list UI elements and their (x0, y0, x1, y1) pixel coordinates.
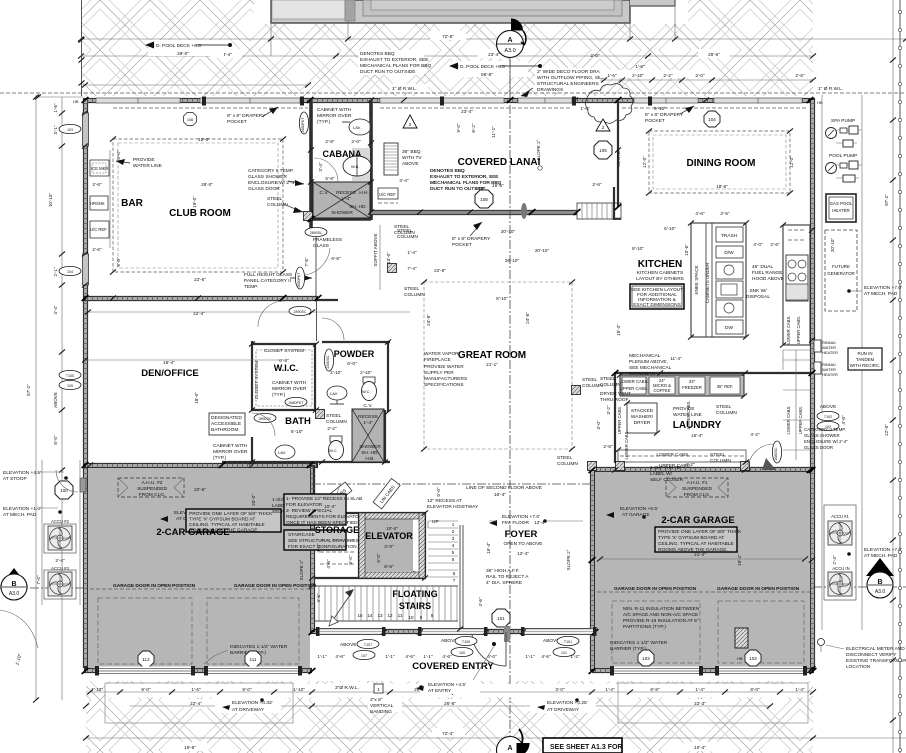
rwl note (390, 84, 854, 92)
B marker right (866, 558, 894, 576)
svg-text:W.I.C.: W.I.C. (274, 363, 299, 373)
svg-text:MIRROR OVER: MIRROR OVER (317, 113, 352, 119)
svg-text:2: 2 (409, 122, 412, 127)
svg-text:5: 5 (452, 550, 455, 555)
svg-text:7'-0": 7'-0" (36, 575, 41, 585)
svg-text:6'-8": 6'-8" (331, 256, 341, 261)
svg-text:STAIRCASE: STAIRCASE (288, 532, 315, 538)
ticks on property line (890, 57, 896, 62)
club room south wall (84, 296, 318, 301)
svg-text:1'-1": 1'-1" (423, 654, 433, 659)
svg-text:8" x 8" DRAPERY: 8" x 8" DRAPERY (645, 112, 684, 118)
svg-text:STRUCTURAL ENGINEERS: STRUCTURAL ENGINEERS (537, 81, 599, 87)
svg-text:7: 7 (453, 578, 456, 583)
svg-text:16'-4": 16'-4" (163, 360, 175, 365)
svg-text:AT STOOP: AT STOOP (3, 476, 27, 482)
svg-text:T101: T101 (564, 640, 572, 644)
svg-text:14: 14 (367, 613, 373, 618)
svg-text:HEATER: HEATER (822, 372, 838, 377)
svg-text:33": 33" (689, 379, 696, 384)
svg-text:1'-6": 1'-6" (635, 64, 645, 69)
svg-text:KITCHEN: KITCHEN (638, 259, 682, 270)
svg-text:RECESS: RECESS (358, 414, 378, 420)
svg-text:20'-10": 20'-10" (830, 238, 835, 253)
svg-text:23'-4": 23'-4" (488, 52, 500, 57)
svg-text:AT MECH. PAD: AT MECH. PAD (3, 512, 37, 518)
svg-text:1'-1": 1'-1" (525, 654, 535, 659)
svg-text:SH. HD.: SH. HD. (349, 204, 367, 210)
garage door openings in bottom walls (95, 666, 807, 676)
svg-text:T.O. POOL DECK +6.5': T.O. POOL DECK +6.5' (152, 43, 202, 49)
svg-text:SLOPE 2°: SLOPE 2° (299, 559, 304, 580)
svg-text:A: A (507, 37, 512, 44)
electrical meter note (818, 639, 825, 646)
svg-text:ABOVE: ABOVE (53, 392, 58, 408)
deco floor drain note (521, 68, 605, 97)
svg-text:FOR EXACT CONFIGURATION: FOR EXACT CONFIGURATION (288, 544, 357, 550)
svg-text:BAR: BAR (121, 198, 143, 209)
left garage east wall (310, 465, 315, 632)
svg-text:CLUB ROOM: CLUB ROOM (169, 208, 231, 219)
svg-text:105: 105 (599, 148, 607, 153)
svg-text:3: 3 (452, 536, 455, 541)
svg-text:20'-10": 20'-10" (501, 229, 516, 234)
svg-text:8'-0": 8'-0" (348, 555, 353, 565)
svg-text:ACCESSIBLE: ACCESSIBLE (211, 421, 241, 427)
svg-text:LOCATION: LOCATION (846, 664, 871, 670)
svg-text:MIRROR OVER: MIRROR OVER (272, 386, 307, 392)
powder wc (363, 377, 375, 383)
revision cloud (586, 84, 634, 124)
stoop door (55, 481, 73, 499)
svg-text:CEILING. TYPICAL AT HABITABLE: CEILING. TYPICAL AT HABITABLE (658, 541, 734, 547)
svg-text:KNEE SPACE: KNEE SPACE (694, 265, 699, 294)
svg-text:ICE MKR: ICE MKR (91, 166, 108, 171)
laundry west wall (614, 372, 616, 463)
svg-text:28'-0": 28'-0" (177, 51, 189, 56)
svg-text:ELEVATION +7.0': ELEVATION +7.0' (864, 547, 902, 553)
svg-text:2'-8": 2'-8" (325, 139, 335, 144)
svg-text:5'-0": 5'-0" (436, 487, 441, 497)
svg-text:24'-8": 24'-8" (525, 312, 530, 324)
wb oval (343, 156, 371, 176)
marker A top (497, 19, 526, 96)
svg-text:T105: T105 (66, 374, 74, 378)
svg-text:EXHAUST TO EXTERIOR, SEE: EXHAUST TO EXTERIOR, SEE (360, 57, 429, 63)
svg-text:4'-6": 4'-6" (478, 597, 483, 607)
svg-text:2: 2 (602, 125, 605, 130)
svg-text:FRAMELESS: FRAMELESS (313, 237, 342, 243)
svg-text:TYPE 'X' GYPSUM BOARD AT: TYPE 'X' GYPSUM BOARD AT (189, 517, 255, 523)
svg-text:HEATER: HEATER (822, 350, 838, 355)
dim stub top-left (36, 96, 83, 98)
stair arrow (333, 592, 352, 620)
dashed deck line above wall (0, 92, 906, 94)
svg-text:22'-4": 22'-4" (190, 701, 202, 706)
svg-text:9'-0": 9'-0" (141, 687, 151, 692)
svg-text:ACCU #2: ACCU #2 (51, 519, 69, 524)
right garage west wall (590, 462, 595, 671)
svg-text:107: 107 (361, 654, 367, 658)
T.O. pool deck notes (145, 40, 542, 77)
svg-text:STEEL: STEEL (326, 413, 342, 419)
bbq counter (384, 143, 398, 175)
svg-text:SEE STRUCTURAL DRAWINGS: SEE STRUCTURAL DRAWINGS (288, 538, 359, 544)
svg-text:STEEL: STEEL (600, 376, 616, 382)
svg-text:POCKET: POCKET (452, 242, 472, 248)
exterior top wall (84, 98, 810, 103)
svg-text:12'-0": 12'-0" (789, 156, 794, 168)
svg-text:9'-10": 9'-10" (654, 106, 666, 111)
svg-text:ABOVE: ABOVE (340, 642, 357, 648)
svg-text:2'-10": 2'-10" (632, 73, 644, 78)
svg-text:TYPE 'X' GYPSUM BOARD AT: TYPE 'X' GYPSUM BOARD AT (658, 535, 724, 541)
svg-text:2'-0": 2'-0" (695, 73, 705, 78)
svg-text:PROVIDE R-19 INSULATION AT 6": PROVIDE R-19 INSULATION AT 6" (623, 618, 699, 624)
svg-text:6'-10": 6'-10" (664, 226, 676, 231)
left exterior wall (83, 98, 88, 668)
svg-text:STEEL: STEEL (710, 452, 726, 458)
svg-text:GARAGE DOOR IN OPEN POSITION: GARAGE DOOR IN OPEN POSITION (717, 586, 800, 592)
svg-text:6'-2": 6'-2" (471, 123, 476, 133)
svg-text:EXISTING TRANSFORMER: EXISTING TRANSFORMER (846, 658, 906, 664)
svg-text:1'-4": 1'-4" (695, 687, 705, 692)
svg-text:8: 8 (431, 613, 434, 618)
wall poche rungs (86, 101, 813, 671)
svg-text:4'-2": 4'-2" (685, 462, 695, 467)
svg-text:19'-0": 19'-0" (192, 196, 197, 208)
svg-text:REQUIREMENTS FOR ELEVATOR: REQUIREMENTS FOR ELEVATOR (286, 514, 363, 520)
svg-text:11: 11 (398, 613, 403, 618)
svg-text:DENOTES BBQ: DENOTES BBQ (430, 168, 465, 174)
svg-text:WATER LINE: WATER LINE (133, 163, 162, 169)
svg-text:12: 12 (387, 613, 393, 618)
svg-text:POCKET: POCKET (645, 118, 665, 124)
svg-text:4'-0": 4'-0" (753, 242, 763, 247)
svg-text:INDICATES 1-1/2" WATER: INDICATES 1-1/2" WATER (610, 640, 668, 646)
svg-text:3'-4": 3'-4" (399, 178, 409, 183)
svg-text:STACKED: STACKED (631, 408, 654, 414)
svg-text:10: 10 (408, 615, 414, 620)
svg-text:2'-2": 2'-2" (663, 73, 673, 78)
top dimension row 1 (78, 31, 906, 59)
svg-text:(TYP.): (TYP.) (213, 455, 227, 461)
svg-text:WITH TV: WITH TV (402, 155, 422, 161)
svg-text:EXHAUST TO EXTERIOR, SEE: EXHAUST TO EXTERIOR, SEE (430, 174, 499, 180)
svg-text:1-3/4" THK "B": 1-3/4" THK "B" (650, 465, 682, 471)
svg-text:2'-6": 2'-6" (592, 182, 602, 187)
second floor line (312, 483, 592, 485)
svg-text:1'-4": 1'-4" (795, 687, 805, 692)
svg-text:3'-0": 3'-0" (316, 543, 321, 553)
svg-text:26'-8": 26'-8" (444, 701, 456, 706)
svg-text:POCKET: POCKET (227, 119, 247, 125)
angled linen cabinets (321, 478, 400, 509)
B marker left (0, 568, 28, 586)
bottom wall left garage (84, 668, 312, 673)
laundry door (772, 441, 781, 463)
svg-text:LINE OF SECOND FLOOR ABOVE: LINE OF SECOND FLOOR ABOVE (466, 485, 542, 491)
svg-text:STEEL: STEEL (557, 455, 573, 461)
svg-text:1'-4": 1'-4" (605, 687, 615, 692)
center line vertical (509, 60, 511, 748)
svg-text:STORAGE: STORAGE (315, 525, 359, 535)
svg-text:9: 9 (420, 615, 423, 620)
svg-text:1'-4": 1'-4" (341, 196, 351, 202)
svg-text:GARAGE DOOR IN OPEN POSITION: GARAGE DOOR IN OPEN POSITION (113, 583, 196, 589)
svg-text:H.H.: H.H. (359, 190, 369, 196)
svg-text:2'-6": 2'-6" (795, 73, 805, 78)
door open rects (98, 598, 192, 664)
svg-text:112: 112 (142, 657, 150, 662)
svg-text:26'-10": 26'-10" (505, 258, 520, 263)
svg-text:5'-0": 5'-0" (376, 553, 381, 563)
hex 105 (594, 141, 612, 159)
svg-text:COLUMN: COLUMN (716, 410, 737, 416)
svg-text:9'-0": 9'-0" (456, 123, 461, 133)
svg-text:GLASS SHOWER: GLASS SHOWER (804, 433, 840, 438)
svg-text:MANUFACTURERS: MANUFACTURERS (424, 376, 467, 382)
left garage slab (88, 468, 310, 668)
see sheet box (543, 738, 622, 753)
svg-text:SELF CLOSER: SELF CLOSER (650, 477, 684, 483)
svg-text:PROVIDE ONE LAYER OF 5/8" THIC: PROVIDE ONE LAYER OF 5/8" THICK (658, 529, 742, 535)
fence circles property line (898, 10, 901, 13)
dims small top cabana (600, 70, 816, 83)
svg-text:4'-6": 4'-6" (695, 211, 705, 216)
svg-text:4" DIA. SPHERE: 4" DIA. SPHERE (486, 580, 522, 586)
svg-text:(TYP.): (TYP.) (272, 392, 286, 398)
svg-text:POWDER: POWDER (334, 349, 375, 359)
svg-text:ROOMS ABOVE THE GARAGE.: ROOMS ABOVE THE GARAGE. (658, 547, 728, 553)
svg-text:LOWER CABS.: LOWER CABS. (786, 315, 791, 344)
window 103 in left wall (83, 113, 89, 146)
svg-text:STEEL: STEEL (582, 377, 598, 383)
svg-text:FIREPLACE: FIREPLACE (424, 357, 451, 363)
svg-text:21'-1": 21'-1" (486, 362, 498, 367)
svg-text:2'-6": 2'-6" (770, 242, 780, 247)
svg-text:2'-8": 2'-8" (603, 444, 613, 449)
svg-text:UP: UP (432, 519, 439, 525)
svg-text:T102: T102 (824, 415, 832, 419)
rinnai heaters (814, 340, 821, 352)
svg-text:11'-4": 11'-4" (670, 356, 682, 361)
kitchen laundry divider (615, 372, 812, 374)
great room north window wall (371, 210, 577, 215)
svg-text:C.V.: C.V. (364, 403, 373, 409)
svg-text:ELEVATION +0.33': ELEVATION +0.33' (232, 700, 273, 706)
denotes bbq note top (358, 50, 432, 75)
svg-text:15'-4": 15'-4" (486, 542, 491, 554)
svg-text:ELEVATION +4.5': ELEVATION +4.5' (3, 470, 41, 476)
elevator shaft side walls (359, 513, 365, 578)
svg-text:21'-4": 21'-4" (694, 552, 706, 557)
svg-text:1'-4": 1'-4" (363, 420, 373, 426)
svg-text:1" Ø R.W.L.: 1" Ø R.W.L. (392, 86, 417, 92)
ahu box (118, 478, 184, 497)
bar cabinets (90, 160, 109, 176)
svg-text:BANDING: BANDING (370, 709, 392, 715)
gas pool heater (826, 194, 856, 222)
east counter with range (783, 225, 810, 345)
svg-text:22'-6": 22'-6" (434, 268, 446, 273)
dining west corner wall (614, 187, 621, 220)
triangle 2 marker (403, 115, 417, 128)
svg-text:2'-0": 2'-0" (590, 53, 600, 58)
uc ref (378, 188, 398, 199)
svg-text:MECHANICAL PLANS FOR BBQ: MECHANICAL PLANS FOR BBQ (430, 180, 502, 186)
future generator (825, 230, 857, 311)
svg-text:5'-0": 5'-0" (116, 150, 121, 160)
svg-text:CABINET WITH: CABINET WITH (272, 380, 307, 386)
svg-text:2" WIDE DECO FLOOR DRAIN: 2" WIDE DECO FLOOR DRAIN (537, 69, 605, 75)
svg-text:DRYER VENT: DRYER VENT (600, 391, 631, 397)
svg-text:LABEL W/: LABEL W/ (650, 471, 673, 477)
svg-text:SHOWER: SHOWER (331, 210, 353, 216)
svg-text:3"Ø R.W.L.: 3"Ø R.W.L. (335, 685, 359, 691)
svg-text:ELEVATION +0.25': ELEVATION +0.25' (547, 700, 588, 706)
svg-text:(TYP.): (TYP.) (317, 119, 331, 125)
svg-text:8" x 8" DRAPERY: 8" x 8" DRAPERY (452, 236, 491, 242)
bath south/powder south wall (222, 461, 390, 463)
svg-text:1'-6": 1'-6" (53, 103, 58, 113)
svg-text:AT MECH. PAD: AT MECH. PAD (864, 291, 898, 297)
svg-text:WATER VAPOR: WATER VAPOR (424, 351, 459, 357)
svg-text:2'-1": 2'-1" (53, 267, 58, 277)
svg-text:22'-6": 22'-6" (194, 277, 206, 282)
svg-text:36" HIGH A.F.F.: 36" HIGH A.F.F. (486, 568, 519, 574)
cabana wc niche (352, 148, 370, 181)
svg-text:HRSNK: HRSNK (90, 201, 105, 206)
svg-text:103: 103 (67, 128, 73, 132)
wic east wall (314, 344, 316, 411)
marker A bottom (497, 737, 524, 753)
low cabinets (618, 450, 746, 462)
svg-text:THRU ROOF: THRU ROOF (600, 397, 629, 403)
elevator cab (359, 513, 425, 578)
svg-text:ELEVATOR HOISTWAY: ELEVATOR HOISTWAY (427, 504, 479, 510)
svg-text:COLUMN: COLUMN (557, 461, 578, 467)
svg-text:12" RECESS AT: 12" RECESS AT (427, 498, 462, 504)
svg-text:10'-6": 10'-6" (684, 244, 689, 256)
svg-text:3'-1": 3'-1" (53, 125, 58, 135)
svg-text:104: 104 (708, 117, 716, 122)
svg-text:LAYOUT BY OTHERS: LAYOUT BY OTHERS (636, 276, 684, 282)
svg-text:MIRROR OVER: MIRROR OVER (213, 449, 248, 455)
svg-text:HEATER: HEATER (832, 208, 849, 213)
svg-text:6'-0": 6'-0" (347, 361, 357, 367)
svg-text:19'-2": 19'-2" (737, 554, 742, 566)
svg-text:ABOVE: ABOVE (402, 161, 419, 167)
svg-text:DESIGNATED: DESIGNATED (211, 415, 242, 421)
svg-text:STEEL: STEEL (394, 224, 410, 230)
svg-text:HB: HB (73, 99, 79, 104)
svg-text:GLASS DOOR: GLASS DOOR (248, 186, 280, 192)
svg-text:COFFEE: COFFEE (654, 388, 671, 393)
svg-text:4'-6": 4'-6" (335, 654, 345, 659)
svg-text:2680PKT: 2680PKT (289, 401, 305, 405)
svg-text:102: 102 (642, 656, 650, 661)
svg-text:1: 1 (377, 687, 380, 692)
svg-text:3'-0": 3'-0" (555, 687, 565, 692)
svg-text:MECHANICAL PLANS FOR BBQ: MECHANICAL PLANS FOR BBQ (360, 63, 432, 69)
svg-text:22'-3": 22'-3" (694, 701, 706, 706)
svg-text:8" x 8" DRAPERY: 8" x 8" DRAPERY (227, 113, 266, 119)
svg-text:BATH: BATH (285, 416, 311, 427)
svg-text:EXACT DIMENSIONS: EXACT DIMENSIONS (633, 302, 681, 308)
svg-text:4'-2": 4'-2" (750, 432, 760, 437)
svg-text:UPPER CABS.: UPPER CABS. (620, 386, 648, 391)
svg-text:6'-8": 6'-8" (279, 358, 289, 364)
svg-text:CABINETS UNDER: CABINETS UNDER (705, 262, 710, 303)
hex 106 (184, 113, 197, 126)
svg-text:RECESS: RECESS (336, 190, 356, 196)
svg-text:3'-4": 3'-4" (318, 162, 323, 172)
svg-text:16'-4": 16'-4" (691, 433, 703, 438)
cabana shower (313, 182, 370, 218)
svg-text:11'-2": 11'-2" (491, 126, 496, 138)
svg-text:4'-0": 4'-0" (487, 654, 497, 659)
svg-text:ELEVATION +1.0': ELEVATION +1.0' (3, 506, 41, 512)
svg-text:28'-0": 28'-0" (201, 182, 213, 187)
svg-text:W.B.: W.B. (351, 164, 359, 169)
svg-text:4: 4 (452, 543, 455, 548)
octagon tags (138, 651, 154, 667)
svg-text:GLASS: GLASS (313, 243, 329, 249)
wic north wall (251, 343, 316, 345)
svg-text:6: 6 (453, 571, 456, 576)
svg-text:1'-1": 1'-1" (317, 654, 327, 659)
svg-text:A/C SPACE AND NON-A/C SPACE: A/C SPACE AND NON-A/C SPACE (623, 612, 698, 618)
svg-text:T100: T100 (462, 640, 470, 644)
svg-text:2-CAR GARAGE: 2-CAR GARAGE (156, 527, 229, 538)
svg-text:TEMP.: TEMP. (244, 284, 258, 290)
svg-text:8'-0": 8'-0" (750, 687, 760, 692)
svg-text:108: 108 (480, 197, 488, 202)
svg-text:18'-6": 18'-6" (716, 184, 728, 189)
powder east wall (387, 342, 389, 412)
svg-text:LAV.: LAV. (330, 391, 338, 396)
entry south wall with windows (310, 629, 596, 634)
svg-text:AT ENTRY: AT ENTRY (428, 688, 452, 694)
svg-text:DUCT RUN TO OUTSIDE: DUCT RUN TO OUTSIDE (360, 69, 415, 75)
svg-text:KITCHEN CABINETS: KITCHEN CABINETS (637, 270, 683, 276)
svg-text:4'-4": 4'-4" (53, 305, 58, 315)
svg-text:ELEVATION +7.0': ELEVATION +7.0' (864, 285, 902, 291)
bottom left arc (0, 610, 38, 648)
svg-text:DISCONNECT VERIFY: DISCONNECT VERIFY (846, 652, 897, 658)
wic/bath west wall (251, 341, 253, 463)
svg-text:COLUMN: COLUMN (326, 419, 347, 425)
svg-text:GAS POOL: GAS POOL (830, 201, 853, 206)
svg-text:1'-4": 1'-4" (407, 250, 417, 255)
svg-text:10'-10": 10'-10" (48, 193, 53, 208)
svg-text:LOWER CABS.: LOWER CABS. (619, 379, 648, 384)
svg-text:12'-4": 12'-4" (534, 520, 546, 525)
svg-text:3'-2": 3'-2" (606, 405, 611, 415)
svg-text:ENCLOSURE W/ 2'-4": ENCLOSURE W/ 2'-4" (804, 439, 848, 444)
svg-text:2'-4": 2'-4" (55, 558, 65, 563)
svg-text:13: 13 (377, 613, 383, 618)
svg-text:CATEGORY II TEMP.: CATEGORY II TEMP. (248, 168, 294, 174)
white strips for dim rows (105, 684, 808, 698)
svg-text:2890SC: 2890SC (294, 310, 307, 314)
svg-text:7'-4": 7'-4" (407, 266, 417, 271)
svg-text:WASHER/: WASHER/ (631, 414, 654, 420)
svg-text:FIN. FLOOR: FIN. FLOOR (502, 520, 529, 526)
svg-text:101: 101 (497, 616, 505, 621)
svg-text:C.V.: C.V. (320, 190, 329, 196)
